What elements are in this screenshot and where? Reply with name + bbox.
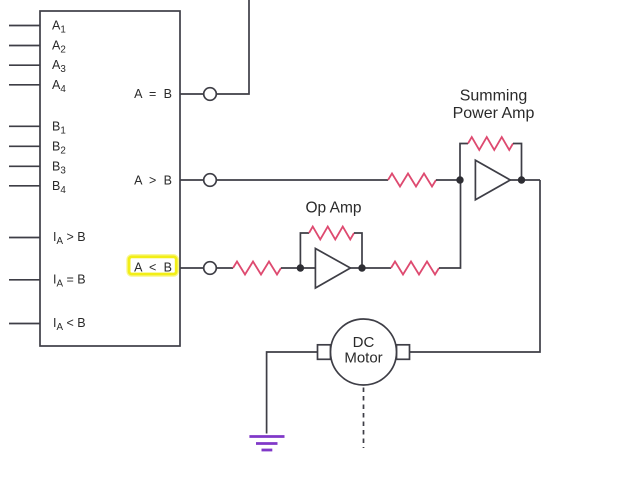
svg-text:Op Amp: Op Amp	[306, 200, 362, 217]
wire resistor R4 to summing node	[439, 180, 461, 268]
resistor R1 (A<B input)	[233, 262, 281, 275]
terminal circle A<B	[204, 262, 217, 275]
wire summing amp output to node	[510, 179, 540, 181]
wire resistor R3 to summing node	[436, 179, 460, 181]
resistor R2 (op-amp feedback)	[309, 227, 354, 240]
wire A=B terminal to top	[216, 0, 249, 94]
resistor R4 (op-amp output)	[391, 262, 439, 275]
svg-text:Summing: Summing	[460, 88, 528, 105]
terminal circle A=B	[204, 88, 217, 101]
svg-text:A = B: A = B	[134, 87, 174, 101]
node dot op-amp output	[358, 264, 365, 271]
motor left terminal tab	[318, 345, 331, 360]
wire input stub IA<B	[9, 323, 40, 325]
wire A=B output to terminal	[180, 93, 204, 95]
svg-text:DC: DC	[353, 334, 375, 351]
wire motor left tab to ground	[267, 352, 318, 434]
wire input stub B1	[9, 125, 40, 127]
svg-text:A > B: A > B	[134, 174, 174, 188]
highlight box around A < B	[129, 257, 176, 274]
DC motor M1 circle	[331, 319, 397, 385]
wire resistor R1 to op-amp input	[281, 267, 315, 269]
svg-text:Motor: Motor	[344, 350, 382, 367]
motor shaft dashed line	[363, 388, 365, 449]
wire input stub A1	[9, 25, 40, 27]
svg-text:Power Amp: Power Amp	[453, 105, 535, 122]
wire input stub B4	[9, 185, 40, 187]
wire input stub B2	[9, 145, 40, 147]
svg-text:A < B: A < B	[134, 261, 174, 275]
node dot summing input	[456, 176, 463, 183]
terminal circle A>B	[204, 174, 217, 187]
wire A<B terminal to resistor R1	[216, 267, 233, 269]
wire input stub A4	[9, 84, 40, 86]
wire input stub IA=B	[9, 279, 40, 281]
motor right terminal tab	[397, 345, 410, 360]
summing amp feedback loop wire (right)	[513, 144, 522, 181]
resistor R5 (summing amp feedback)	[468, 137, 513, 150]
op-amp U2 triangle	[315, 249, 350, 289]
op-amp feedback loop wire (left)	[300, 233, 309, 268]
comparator box U1	[40, 11, 180, 346]
wire A>B output to terminal	[180, 179, 204, 181]
wire input stub B3	[9, 165, 40, 167]
op-amp feedback loop wire (right)	[354, 233, 362, 268]
summing amp feedback loop wire (left)	[460, 144, 468, 181]
wire A<B output to terminal	[180, 267, 204, 269]
wire summing output down to motor	[410, 180, 541, 352]
resistor R3 (A>B input to summing amp)	[388, 174, 436, 187]
wire input stub A3	[9, 64, 40, 66]
ground symbol	[249, 437, 284, 451]
wire A>B terminal to resistor R3	[216, 179, 388, 181]
node dot summing output	[518, 176, 525, 183]
wire input stub IA>B	[9, 237, 40, 239]
node dot op-amp input	[297, 264, 304, 271]
summing power amp U3 triangle	[475, 160, 510, 200]
wire input stub A2	[9, 45, 40, 47]
wire op-amp output to node	[350, 267, 391, 269]
